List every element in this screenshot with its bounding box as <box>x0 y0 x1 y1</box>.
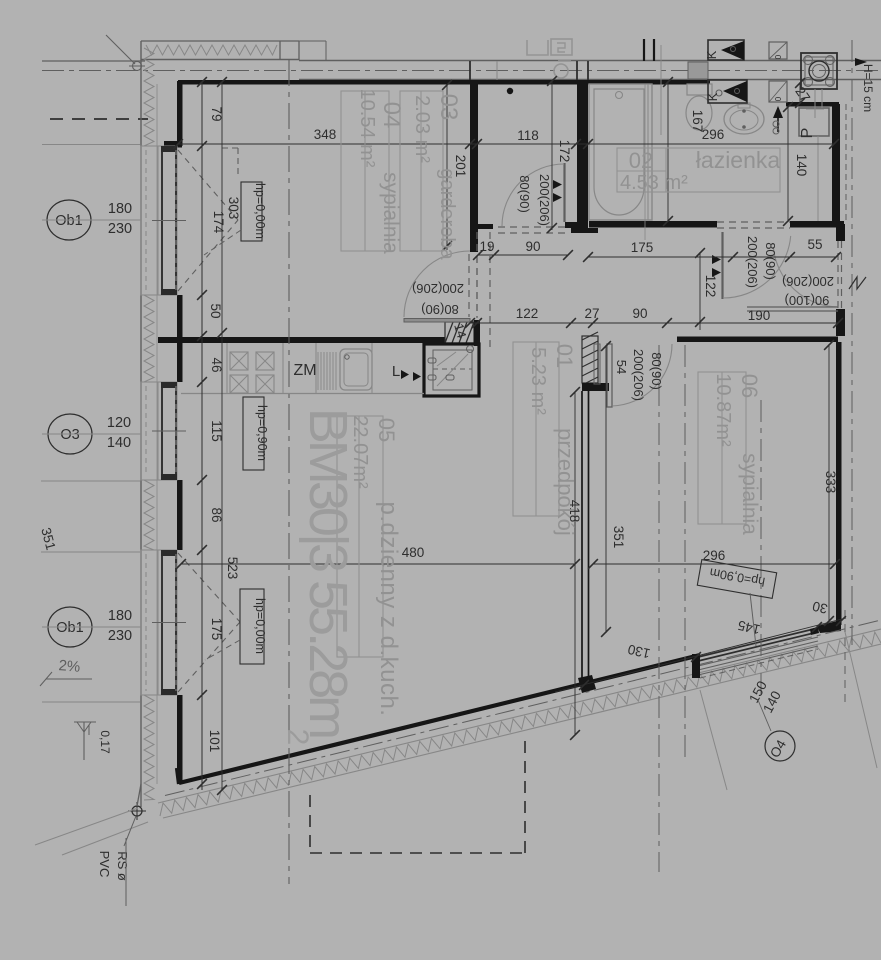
circle O3 <box>42 414 141 454</box>
hp=0,00m box lower <box>240 589 267 664</box>
svg-text:200(206): 200(206) <box>782 274 834 289</box>
wall garderoba right top seg <box>568 79 576 81</box>
svg-text:4.53 m²: 4.53 m² <box>620 172 688 194</box>
svg-text:122: 122 <box>516 306 539 321</box>
svg-text:101: 101 <box>207 730 222 753</box>
bathroom ceiling point <box>716 90 722 96</box>
left wall hatch seg2 <box>144 295 154 382</box>
svg-text:122: 122 <box>703 275 718 298</box>
room label 05 box <box>337 416 383 657</box>
hp=0,00m box top <box>241 182 267 241</box>
room label 5.23 <box>527 347 549 415</box>
room label sypialnia 04 <box>379 172 402 254</box>
dim 175 left <box>209 618 224 641</box>
svg-text:175: 175 <box>631 240 654 255</box>
sypialnia04 corner dashes <box>222 148 238 178</box>
dim chain hall upper <box>473 250 573 260</box>
dim chain bath bottom <box>583 252 841 262</box>
svg-text:K: K <box>705 92 720 101</box>
svg-text:140: 140 <box>107 435 131 451</box>
label 80(90) syp06 <box>649 352 664 390</box>
left wall interior face seg4 <box>177 695 183 784</box>
garderoba door arc <box>502 164 564 226</box>
left wall inner layer line <box>156 84 158 784</box>
sypialnia06 door arc <box>612 344 672 406</box>
svg-text:90: 90 <box>632 306 647 321</box>
svg-text:hp=0,00m: hp=0,00m <box>253 183 267 239</box>
window Ob1 lower (180/230) <box>141 550 186 695</box>
svg-text:80(90): 80(90) <box>763 242 778 280</box>
dim 30 <box>811 598 829 616</box>
svg-text:80(90): 80(90) <box>421 302 459 317</box>
bottom-left corner survey circle <box>128 802 146 820</box>
room label 10.87 <box>712 373 734 447</box>
svg-text:02: 02 <box>629 148 653 173</box>
garderoba door leaf <box>563 163 565 222</box>
top wall end post <box>279 41 281 60</box>
svg-text:BM30|3 55.28m: BM30|3 55.28m <box>298 408 358 737</box>
dimension chain top <box>173 139 839 149</box>
label 2 percent <box>40 657 92 686</box>
door bell symbol <box>773 121 779 134</box>
label 54 <box>614 360 629 374</box>
left wall insulation hatch upper <box>144 48 154 146</box>
corridor upper wall line <box>299 60 881 62</box>
dim chain hall lower <box>465 318 843 328</box>
svg-text:K: K <box>704 50 719 59</box>
dim 351 syp <box>611 526 626 549</box>
top wall exterior face line <box>141 40 299 42</box>
room label 04 <box>378 102 405 129</box>
stair marks || <box>644 39 654 61</box>
dim chain 418 <box>570 387 580 740</box>
dim 130 <box>626 642 651 662</box>
sypialnia06 sliding track <box>747 307 838 311</box>
dim 101 <box>207 730 222 753</box>
hp leader dashes lower <box>205 640 240 660</box>
label 200(206) gard <box>537 174 552 226</box>
svg-text:523: 523 <box>225 557 240 580</box>
svg-text:200(206): 200(206) <box>537 174 552 226</box>
label 150/140 <box>746 678 784 715</box>
dim 348 <box>314 127 337 142</box>
faint neighbour text glyphs <box>527 39 572 78</box>
terrace dashed outline <box>310 737 525 853</box>
dim 86 <box>209 507 224 522</box>
room label 04 sypialnia box <box>341 91 389 251</box>
hp=0,90m box <box>243 397 269 470</box>
dim 115 <box>209 420 224 442</box>
svg-text:Ob1: Ob1 <box>55 213 82 229</box>
vent shaft K2 <box>705 80 747 103</box>
dim 27 h <box>584 306 599 321</box>
svg-text:01: 01 <box>552 344 577 368</box>
svg-text:230: 230 <box>108 221 132 237</box>
hp=0,90m box tilted <box>697 560 776 646</box>
apartment label sup2 <box>281 729 314 746</box>
svg-text:p.dzienny z d.kuch.: p.dzienny z d.kuch. <box>375 502 402 717</box>
svg-text:50: 50 <box>208 303 223 318</box>
right wall upper <box>832 104 840 224</box>
toilet <box>686 84 712 130</box>
sink bowl <box>340 349 372 390</box>
room label 06 <box>737 374 762 398</box>
dim 167 <box>690 110 705 133</box>
svg-text:garderoba: garderoba <box>436 168 458 260</box>
survey point leader top-left <box>106 35 135 64</box>
apartment label BM30 <box>298 408 358 737</box>
circle Ob1 upper <box>42 200 141 240</box>
margin line y144 <box>42 144 140 146</box>
kitchen counter edge <box>181 343 424 394</box>
garderoba right wall foot <box>565 222 577 228</box>
bathroom door arrows <box>712 255 721 277</box>
svg-text:ZM: ZM <box>293 362 316 379</box>
sypialnia06 right wall <box>836 342 842 625</box>
dim 303 <box>226 197 241 220</box>
note RS PVC <box>97 838 130 906</box>
dim 46 <box>209 357 224 372</box>
axis x685 <box>684 345 686 758</box>
bathroom door arc <box>723 236 791 298</box>
dim 175 bath <box>631 240 654 255</box>
window splay line left <box>700 690 727 790</box>
corridor stub lines <box>470 61 588 80</box>
right wall entry jamb <box>836 224 845 241</box>
dim 296 syp <box>703 548 726 563</box>
svg-text:sypialnia: sypialnia <box>738 453 761 535</box>
dim 90 h2 <box>632 306 647 321</box>
entry door arc <box>773 247 839 307</box>
label 14 <box>451 322 469 340</box>
dimension chain left outer <box>217 77 227 795</box>
window O3 (120/140) <box>141 382 186 480</box>
svg-text:27: 27 <box>584 306 599 321</box>
room label 01 box <box>513 342 559 516</box>
svg-text:hp=0,90m: hp=0,90m <box>255 405 269 461</box>
dim chain 296syp <box>588 559 840 569</box>
dim chain 201 <box>442 80 452 251</box>
diagonal wall axis dash-dot <box>165 620 881 796</box>
washing machine P <box>799 100 829 138</box>
ZM dishwasher label <box>293 362 316 379</box>
dim 174 <box>211 211 226 234</box>
svg-text:90: 90 <box>525 239 540 254</box>
dim 19 <box>479 239 494 254</box>
przedpokoj right wall <box>582 391 589 678</box>
kitchen shaft box <box>424 344 479 396</box>
svg-text:sypialnia: sypialnia <box>379 172 402 254</box>
dim chain diagonal <box>555 616 846 692</box>
svg-text:200(206): 200(206) <box>631 349 646 401</box>
corridor dark pier <box>688 62 708 79</box>
bathroom door leaf <box>721 232 723 299</box>
svg-text:90(100): 90(100) <box>785 293 830 308</box>
svg-text:140: 140 <box>794 154 809 177</box>
room label 02 box <box>617 148 780 192</box>
entry door opening dashes <box>838 241 842 309</box>
room label 2.03 <box>411 95 433 163</box>
svg-text:Ob1: Ob1 <box>56 620 83 636</box>
svg-text:L: L <box>392 363 400 380</box>
dim 50 <box>208 303 223 318</box>
dim 122 h <box>516 306 539 321</box>
top wall insulation hatch <box>146 45 277 55</box>
svg-text:0: 0 <box>774 96 783 101</box>
top wall step lines <box>299 41 326 60</box>
level marker -0,17 <box>74 722 112 760</box>
dim 201 <box>453 155 468 178</box>
svg-text:P: P <box>799 128 816 139</box>
svg-text:54: 54 <box>614 360 629 374</box>
dim chain 27tr <box>795 78 805 108</box>
window Ob1 upper (180/230) <box>141 146 186 295</box>
wall piece 14 hatched <box>445 322 474 343</box>
axis x852 <box>851 40 853 645</box>
room label przedpokoj <box>553 428 578 536</box>
svg-text:łazienka: łazienka <box>696 147 781 173</box>
label 200(206) syp06 <box>631 349 646 401</box>
svg-text:172: 172 <box>557 140 572 163</box>
dim chain 172 <box>547 76 557 233</box>
dim 418 <box>567 500 582 523</box>
left wall hatch seg3 <box>144 480 154 550</box>
room label 05 <box>374 418 399 442</box>
margin line top-left <box>42 60 145 62</box>
top wall apartments <box>178 80 710 85</box>
label 180/230 upper <box>108 201 132 237</box>
room label garderoba <box>436 168 458 260</box>
fridge L mark <box>392 363 421 381</box>
svg-text:167: 167 <box>690 110 705 133</box>
label 80(90) bath <box>763 242 778 280</box>
svg-text:480: 480 <box>402 545 425 560</box>
corner leader RS <box>124 816 136 846</box>
svg-text:06: 06 <box>737 374 762 398</box>
room label sypialnia 06 <box>738 453 761 535</box>
svg-text:230: 230 <box>108 628 132 644</box>
svg-text:174: 174 <box>211 211 226 234</box>
label 90(100) top <box>0 0 1 1</box>
svg-text:19: 19 <box>479 239 494 254</box>
room label 03 box <box>400 91 443 251</box>
axis dash-dot horizontal y71 <box>42 70 881 72</box>
dim 190 <box>748 308 771 323</box>
svg-text:5.23 m²: 5.23 m² <box>527 347 549 415</box>
svg-text:120: 120 <box>107 415 131 431</box>
bathroom left wall <box>577 80 588 228</box>
label 200(206) bath <box>745 236 760 288</box>
room label 03 <box>435 94 462 121</box>
svg-text:03: 03 <box>435 94 462 121</box>
dim 523 <box>225 557 240 580</box>
window V dashes upper <box>178 150 238 291</box>
svg-text:0: 0 <box>774 54 783 59</box>
bathtub <box>589 84 652 220</box>
dim 333 <box>823 471 838 494</box>
svg-text:2: 2 <box>281 729 314 746</box>
axis x761 <box>760 400 762 700</box>
O4 leader <box>758 700 771 731</box>
note H=15cm <box>855 58 875 112</box>
left wall exterior face <box>140 41 142 807</box>
diagonal band insulation hatch <box>160 632 881 816</box>
dim 79 <box>209 106 224 121</box>
axis x659 <box>658 345 660 872</box>
svg-text:O3: O3 <box>60 427 79 443</box>
svg-text:0,17: 0,17 <box>98 730 112 754</box>
corridor lower wall line <box>299 79 881 81</box>
svg-text:55: 55 <box>807 237 822 252</box>
room label pdzienny <box>375 502 402 717</box>
circle O4 <box>765 731 795 761</box>
survey point circle top-left <box>129 62 145 71</box>
przedpokoj hatched pillar <box>582 332 609 391</box>
przedpokoj wall bottom post <box>578 675 596 693</box>
room label 22.07 <box>349 415 371 489</box>
dim chain 167 <box>663 77 673 226</box>
left wall hatch seg4 <box>144 695 154 800</box>
chimney pipes <box>815 89 822 221</box>
room label 10.54 <box>356 89 378 168</box>
tick 14 <box>472 318 482 328</box>
room label 01 <box>552 344 577 368</box>
label 80(90) gard <box>517 175 532 213</box>
dim chain 122v <box>695 248 705 330</box>
label 80(90) syp04 <box>421 302 459 317</box>
hob 4 burners <box>230 352 274 393</box>
bathroom bottom wall right seg <box>790 221 844 228</box>
diagonal band outer line2 <box>163 644 881 818</box>
svg-text:05: 05 <box>374 418 399 442</box>
sypialnia06 door leaf <box>607 344 612 407</box>
sypialnia06 window dash <box>700 649 818 678</box>
kitchen wall (living top) <box>158 337 445 343</box>
bathroom projection line <box>645 45 661 240</box>
window splay line right <box>845 632 877 768</box>
sypialnia06 corner step <box>817 620 841 633</box>
svg-text:10.54 m²: 10.54 m² <box>356 89 378 168</box>
garderoba door opening dashes <box>498 227 570 233</box>
svg-text:180: 180 <box>108 608 132 624</box>
room label 4.53 <box>620 172 688 194</box>
dim chain 351s <box>601 341 611 637</box>
dim 145 <box>736 618 761 638</box>
svg-text:200(206): 200(206) <box>745 236 760 288</box>
svg-text:10.87m²: 10.87m² <box>712 373 734 447</box>
entry arrow <box>773 106 783 132</box>
vertical axis x289 <box>288 60 290 884</box>
dim 55 <box>807 237 822 252</box>
dim chain 333 <box>824 340 834 626</box>
dim 27 top right <box>792 84 813 105</box>
dimension chain left inner <box>197 77 207 790</box>
corner splay lines <box>35 784 148 855</box>
dashed x845 <box>845 104 846 705</box>
label 351 margin <box>38 526 58 552</box>
svg-text:303: 303 <box>226 197 241 220</box>
svg-text:351: 351 <box>611 526 626 549</box>
diagonal band outer line1 <box>158 629 881 803</box>
dim chain 480 <box>176 559 580 569</box>
sypialnia04 door arc <box>404 251 470 322</box>
svg-text:H=15 cm: H=15 cm <box>861 64 875 112</box>
svg-text:118: 118 <box>517 128 539 143</box>
label 200(206) syp04 <box>412 281 464 296</box>
label 200(206) entry <box>782 274 834 289</box>
svg-text:RS ø: RS ø <box>115 851 130 881</box>
svg-text:200(206): 200(206) <box>412 281 464 296</box>
sypialnia ceiling point <box>507 88 513 94</box>
wall sypialnia04 right (garderoba left) <box>470 80 493 252</box>
garderoba/hall wall post <box>474 320 480 346</box>
left wall interior face seg3 <box>177 480 183 550</box>
break symbol right <box>849 277 866 289</box>
window V dashes lower <box>178 553 240 692</box>
svg-text:190: 190 <box>748 308 771 323</box>
sypialnia04 door opening dashes <box>469 254 477 317</box>
room label 02 <box>629 148 653 173</box>
margin line y702 <box>42 701 140 703</box>
svg-text:przedpokój: przedpokój <box>553 428 578 536</box>
left wall interior face seg2 <box>177 295 183 382</box>
svg-text:348: 348 <box>314 127 337 142</box>
margin line y481 <box>41 480 140 482</box>
dim 140 <box>794 154 809 177</box>
right wall below entry door <box>836 309 845 336</box>
svg-text:2.03 m²: 2.03 m² <box>411 95 433 163</box>
chimney <box>801 53 837 89</box>
room label lazienka <box>696 147 781 173</box>
svg-text:333: 333 <box>823 471 838 494</box>
svg-text:180: 180 <box>108 201 132 217</box>
dim 90 hall <box>525 239 540 254</box>
left wall interior face seg1 <box>164 81 183 148</box>
hall opening dashes <box>477 232 490 352</box>
sypialnia06 window lines <box>692 627 819 678</box>
dashed line y119 <box>50 118 148 120</box>
dim 122 v <box>703 275 718 298</box>
svg-text:2%: 2% <box>58 657 81 676</box>
svg-text:04: 04 <box>378 102 405 129</box>
dim 296 bathroom <box>702 127 725 142</box>
living room bottom wall diagonal <box>177 655 700 784</box>
label 180/230 lower <box>108 608 132 644</box>
dim chain 140 <box>783 102 793 226</box>
room label 06 box <box>698 372 746 524</box>
svg-text:80(90): 80(90) <box>649 352 664 390</box>
circle Ob1 lower <box>42 607 141 647</box>
bathroom bottom wall left seg <box>589 221 717 228</box>
label 90(100) entry <box>785 293 830 308</box>
margin line y552 <box>41 551 140 553</box>
sink drainer <box>318 352 336 390</box>
bathroom door opening dashes <box>717 222 790 228</box>
dim 480 <box>402 545 425 560</box>
top wall right segment <box>786 102 839 107</box>
top wall inner face <box>141 59 299 61</box>
washbasin <box>724 103 764 134</box>
svg-text:PVC: PVC <box>97 851 112 878</box>
bathroom bottom wall step <box>571 228 598 233</box>
svg-text:80(90): 80(90) <box>517 175 532 213</box>
label 120/140 <box>107 415 131 451</box>
shaft door box 2 <box>769 81 787 102</box>
sypialnia06 top wall <box>677 337 838 343</box>
hp leader dashes top <box>204 230 241 255</box>
vent shaft K1 <box>704 40 744 60</box>
svg-text:hp=0,00m: hp=0,00m <box>253 598 267 654</box>
